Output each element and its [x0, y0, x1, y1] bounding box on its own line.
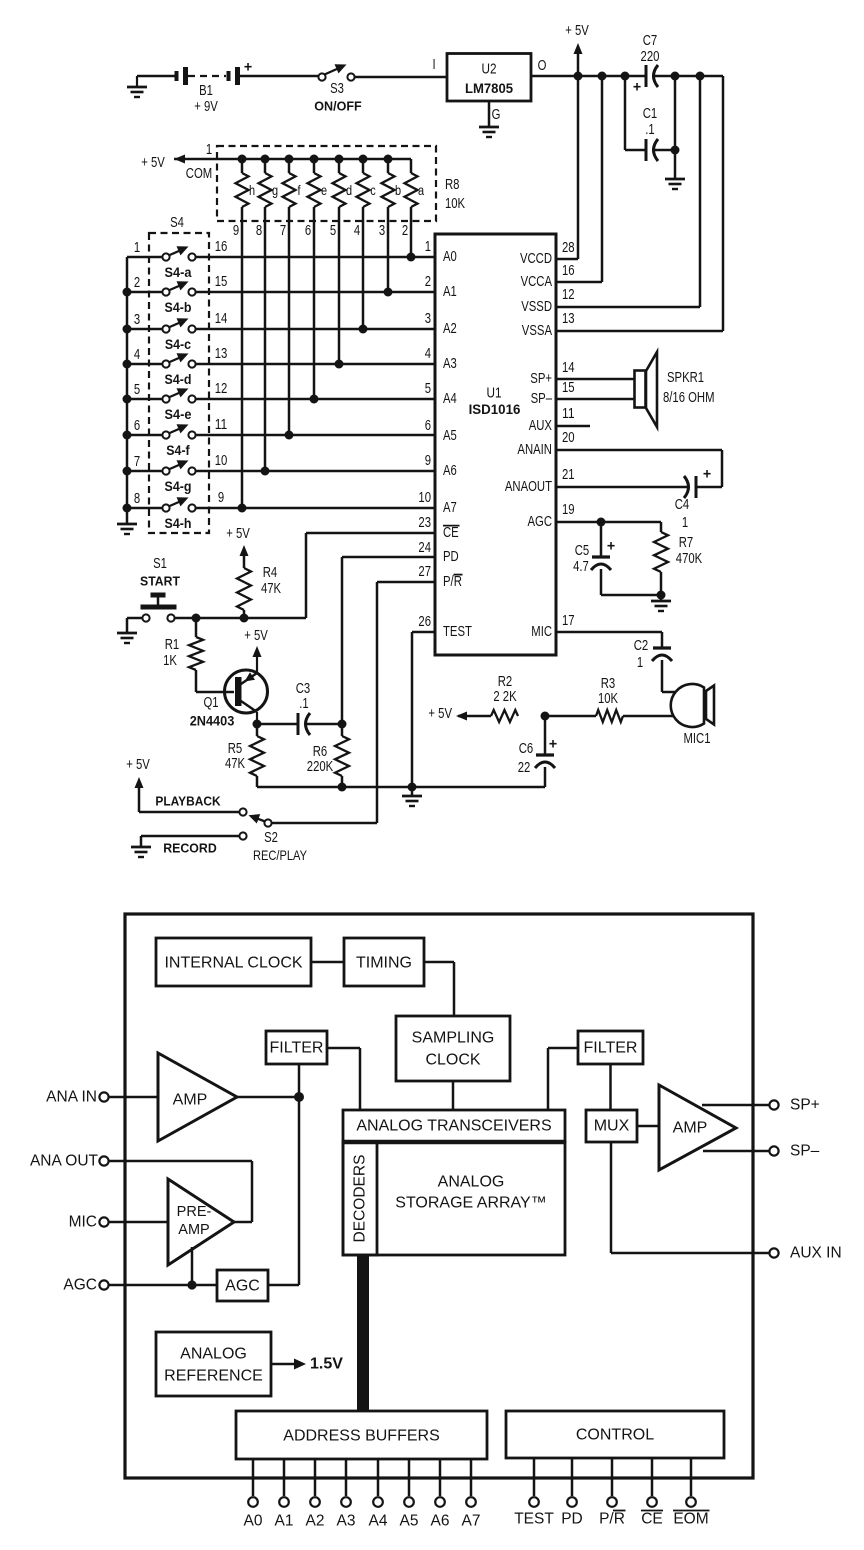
svg-text:R3: R3 — [601, 676, 616, 692]
svg-text:13: 13 — [215, 346, 228, 362]
svg-text:3: 3 — [134, 312, 140, 328]
transistor Q1 2N4403 — [190, 650, 268, 729]
svg-text:AMP: AMP — [173, 1092, 208, 1109]
wire +5V rail — [531, 75, 723, 78]
block FILTER left — [266, 1031, 327, 1064]
svg-text:U2: U2 — [482, 61, 497, 78]
wire — [609, 1064, 612, 1110]
wire — [548, 1048, 578, 1110]
svg-text:23: 23 — [418, 515, 431, 531]
pin label CE pin 23 — [418, 515, 459, 541]
wire — [196, 328, 435, 331]
pin number 2 — [402, 223, 408, 239]
svg-text:6: 6 — [305, 223, 311, 239]
pin label VSSD pin 12 — [521, 287, 574, 315]
svg-text:8: 8 — [256, 223, 262, 239]
pin label TEST pin 26 — [418, 614, 472, 640]
svg-text:INTERNAL CLOCK: INTERNAL CLOCK — [164, 955, 302, 972]
ground S1 — [117, 633, 137, 643]
ground R7 — [651, 595, 671, 611]
wire — [305, 723, 342, 726]
wire SP+ out — [702, 1104, 770, 1107]
pin number 5 — [330, 223, 336, 239]
svg-text:470K: 470K — [676, 551, 703, 567]
node A2 pin — [306, 1459, 325, 1530]
node A0 pin — [244, 1459, 263, 1530]
wire — [623, 715, 674, 718]
wire — [141, 836, 240, 856]
svg-text:SAMPLING: SAMPLING — [412, 1030, 495, 1047]
resistor R8-d — [333, 159, 353, 364]
node A5 pin — [400, 1459, 419, 1530]
pin label MIC pin 17 — [531, 613, 574, 640]
junction — [285, 155, 294, 164]
switch S4-h — [134, 490, 224, 531]
svg-text:47K: 47K — [225, 756, 245, 772]
pin number 9 — [233, 223, 239, 239]
junction — [384, 288, 393, 297]
junction — [335, 155, 344, 164]
wire AUX IN — [611, 1142, 770, 1253]
node +5V playback — [126, 757, 150, 812]
svg-text:Q1: Q1 — [203, 695, 218, 711]
junction — [294, 1092, 304, 1102]
node A1 pin — [275, 1459, 294, 1530]
junction — [123, 395, 132, 404]
svg-text:AUX: AUX — [529, 418, 553, 434]
svg-text:7: 7 — [134, 454, 140, 470]
svg-text:e: e — [321, 182, 327, 198]
svg-text:14: 14 — [562, 360, 575, 376]
svg-text:S1: S1 — [153, 556, 167, 572]
svg-text:d: d — [346, 182, 352, 198]
capacitor C1 .1 — [643, 106, 658, 161]
svg-text:START: START — [140, 574, 180, 589]
svg-text:3: 3 — [379, 223, 385, 239]
svg-text:+: + — [703, 466, 712, 483]
svg-text:C6: C6 — [519, 741, 534, 757]
svg-text:TEST: TEST — [443, 624, 472, 640]
svg-text:MIC: MIC — [69, 1214, 97, 1231]
svg-text:FILTER: FILTER — [584, 1040, 638, 1057]
op-amp PRE-AMP — [168, 1179, 234, 1265]
svg-text:4: 4 — [354, 223, 360, 239]
svg-text:4: 4 — [425, 346, 431, 362]
wire VCCD to rail — [556, 76, 578, 259]
svg-text:220: 220 — [641, 49, 660, 65]
pin label SP– pin 15 — [531, 380, 575, 407]
svg-text:17: 17 — [562, 613, 575, 629]
wire — [327, 1048, 360, 1110]
junction — [671, 146, 680, 155]
wire VCCA to rail — [556, 76, 602, 282]
svg-text:5: 5 — [425, 381, 431, 397]
svg-text:11: 11 — [562, 406, 575, 422]
svg-text:S4-b: S4-b — [165, 300, 192, 315]
svg-text:3: 3 — [425, 311, 431, 327]
svg-text:2: 2 — [425, 274, 431, 290]
switch S4-e — [134, 381, 227, 422]
svg-text:ANALOG: ANALOG — [180, 1346, 247, 1363]
wire — [355, 57, 447, 77]
svg-text:+: + — [244, 59, 253, 76]
svg-text:A6: A6 — [431, 1513, 450, 1530]
resistor R8-a — [405, 159, 425, 257]
junction — [657, 591, 666, 600]
wire — [127, 291, 162, 294]
junction — [338, 783, 347, 792]
svg-text:ANA IN: ANA IN — [46, 1089, 97, 1106]
node +5V R4 — [226, 526, 250, 556]
svg-text:C7: C7 — [643, 33, 658, 49]
junction — [285, 431, 294, 440]
svg-text:SP–: SP– — [531, 391, 553, 407]
svg-text:CONTROL: CONTROL — [576, 1427, 654, 1444]
node ANA IN terminal — [46, 1089, 108, 1106]
junction — [123, 431, 132, 440]
pin label A1 pin 2 — [425, 274, 457, 300]
svg-text:+ 5V: + 5V — [226, 526, 250, 542]
wire SP- out — [703, 1150, 770, 1153]
pin number 7 — [280, 223, 286, 239]
junction — [123, 325, 132, 334]
wire — [257, 723, 297, 726]
pin label ANAOUT pin 21 — [505, 467, 575, 495]
node +5V mic bias — [428, 706, 491, 722]
block FILTER right — [578, 1031, 643, 1064]
junction — [359, 325, 368, 334]
switch S4-b — [134, 274, 227, 315]
svg-text:+: + — [549, 736, 558, 753]
svg-text:14: 14 — [215, 311, 228, 327]
svg-text:ANALOG: ANALOG — [438, 1174, 505, 1191]
svg-text:h: h — [249, 182, 255, 198]
wire — [196, 291, 435, 294]
svg-text:A3: A3 — [337, 1513, 356, 1530]
wire — [196, 363, 435, 366]
svg-text:CE: CE — [443, 525, 459, 541]
svg-text:+ 9V: + 9V — [194, 99, 218, 115]
svg-text:7: 7 — [280, 223, 286, 239]
junction — [696, 72, 705, 81]
svg-text:AUX IN: AUX IN — [790, 1245, 842, 1262]
resistor R8-b — [382, 159, 402, 292]
pin number 3 — [379, 223, 385, 239]
resistor R3 10K — [596, 676, 623, 722]
svg-text:5: 5 — [330, 223, 336, 239]
switch S4-a — [134, 239, 227, 280]
svg-text:A0: A0 — [244, 1513, 263, 1530]
block AGC — [217, 1270, 268, 1301]
ground rail — [402, 787, 422, 806]
junction — [123, 504, 132, 513]
svg-text:SP+: SP+ — [530, 371, 552, 387]
junction — [597, 518, 606, 527]
speaker SPKR1 8/16 OHM — [635, 352, 715, 427]
junction — [574, 72, 583, 81]
wire — [240, 75, 318, 78]
ground S4 — [117, 524, 137, 534]
capacitor C4 1 — [675, 466, 712, 532]
junction — [261, 155, 270, 164]
svg-text:SPKR1: SPKR1 — [667, 370, 704, 386]
svg-text:ISD1016: ISD1016 — [469, 401, 521, 417]
svg-text:6: 6 — [425, 418, 431, 434]
wire — [545, 715, 596, 718]
svg-text:S4-c: S4-c — [165, 337, 192, 352]
wire CE — [306, 533, 435, 618]
svg-text:G: G — [492, 107, 501, 123]
wire SP- — [556, 398, 635, 401]
svg-text:10K: 10K — [445, 196, 465, 212]
svg-text:28: 28 — [562, 240, 575, 256]
svg-text:1: 1 — [682, 515, 688, 531]
svg-text:c: c — [370, 182, 376, 198]
junction — [253, 720, 262, 729]
wire — [311, 961, 344, 964]
junction — [671, 72, 680, 81]
svg-text:DECODERS: DECODERS — [352, 1155, 369, 1243]
svg-text:ADDRESS BUFFERS: ADDRESS BUFFERS — [283, 1428, 439, 1445]
block MUX — [586, 1110, 637, 1142]
pin label A2 pin 3 — [425, 311, 457, 337]
op-amp AMP right — [659, 1085, 736, 1170]
svg-text:10: 10 — [215, 453, 228, 469]
svg-text:22: 22 — [518, 760, 531, 776]
svg-text:2 2K: 2 2K — [493, 689, 517, 705]
junction — [261, 467, 270, 476]
junction — [310, 395, 319, 404]
pin label ANAIN pin 20 — [517, 430, 574, 458]
pin label VCCA pin 16 — [521, 263, 575, 290]
pin label A3 pin 4 — [425, 346, 457, 372]
node A7 pin — [462, 1459, 481, 1530]
wire P/R — [272, 582, 435, 823]
resistor R6 220K — [307, 724, 349, 787]
svg-text:19: 19 — [562, 502, 575, 518]
svg-text:TIMING: TIMING — [356, 955, 412, 972]
pin label A4 pin 5 — [425, 381, 457, 407]
node CE pin — [641, 1458, 663, 1528]
wire C1 left leg — [625, 76, 645, 150]
node PD pin — [561, 1458, 583, 1528]
wire — [237, 1096, 299, 1099]
node SP+ terminal — [769, 1097, 819, 1114]
svg-text:S4-g: S4-g — [165, 479, 192, 494]
node EOM pin — [673, 1458, 710, 1528]
svg-text:PRE-: PRE- — [177, 1204, 212, 1220]
switch S4-c — [134, 311, 227, 352]
svg-text:STORAGE ARRAY™: STORAGE ARRAY™ — [395, 1195, 546, 1212]
svg-text:+ 5V: + 5V — [126, 757, 150, 773]
resistor R8-g — [259, 159, 279, 471]
block CONTROL — [506, 1411, 724, 1458]
node A4 pin — [369, 1459, 388, 1530]
ground B1 negative terminal — [127, 76, 147, 97]
junction — [192, 614, 201, 623]
svg-text:FILTER: FILTER — [270, 1040, 324, 1057]
svg-text:21: 21 — [562, 467, 575, 483]
wire — [191, 1247, 194, 1285]
capacitor C6 22 — [518, 716, 558, 787]
svg-text:I: I — [432, 57, 435, 73]
svg-text:C3: C3 — [296, 681, 311, 697]
svg-text:ANAIN: ANAIN — [517, 442, 552, 458]
wire — [127, 470, 162, 473]
block ANALOG REFERENCE — [156, 1332, 271, 1396]
svg-text:13: 13 — [562, 311, 575, 327]
node COM +5V arrow — [141, 142, 411, 182]
ground U2 — [479, 127, 499, 137]
svg-text:A1: A1 — [275, 1513, 294, 1530]
pin label PD pin 24 — [418, 540, 458, 565]
svg-text:g: g — [272, 182, 278, 198]
wire ANAOUT — [556, 486, 688, 489]
svg-text:R7: R7 — [679, 535, 694, 551]
wire — [424, 962, 454, 1016]
node AGC terminal — [63, 1277, 108, 1294]
wire — [637, 1125, 659, 1128]
wire SP+ — [556, 378, 635, 381]
pin label VCCD pin 28 — [520, 240, 575, 267]
bus address lines — [357, 1255, 369, 1411]
svg-text:+ 5V: + 5V — [141, 155, 165, 171]
battery B1 — [175, 59, 253, 116]
wire — [127, 328, 162, 331]
resistor R2 2.2K — [491, 674, 518, 722]
svg-text:10K: 10K — [598, 691, 618, 707]
junction — [123, 360, 132, 369]
svg-text:AGC: AGC — [63, 1277, 97, 1294]
pin label A6 pin 9 — [425, 453, 457, 479]
block SAMPLING CLOCK — [396, 1016, 510, 1081]
svg-text:ANALOG TRANSCEIVERS: ANALOG TRANSCEIVERS — [356, 1118, 551, 1135]
wire — [196, 434, 435, 437]
svg-text:6: 6 — [134, 418, 140, 434]
junction — [384, 155, 393, 164]
junction — [123, 288, 132, 297]
wire — [601, 594, 661, 597]
wire — [127, 434, 162, 437]
svg-text:R8: R8 — [445, 177, 460, 193]
svg-text:A6: A6 — [443, 463, 457, 479]
svg-text:4: 4 — [134, 347, 140, 363]
svg-text:ANA OUT: ANA OUT — [30, 1153, 99, 1170]
svg-text:PD: PD — [443, 549, 459, 565]
node A6 pin — [431, 1459, 450, 1530]
svg-text:PD: PD — [561, 1511, 583, 1528]
svg-text:AMP: AMP — [178, 1222, 209, 1238]
svg-text:P/R: P/R — [599, 1511, 625, 1528]
svg-text:a: a — [418, 182, 424, 198]
svg-text:S4-f: S4-f — [166, 443, 190, 458]
svg-text:1.5V: 1.5V — [310, 1356, 343, 1373]
block ANALOG TRANSCEIVERS — [343, 1110, 565, 1142]
wire S4 common bus — [127, 257, 162, 524]
svg-text:VCCA: VCCA — [521, 274, 553, 290]
svg-text:S4-h: S4-h — [165, 516, 192, 531]
svg-text:1: 1 — [425, 239, 431, 255]
microphone MIC1 — [671, 684, 714, 747]
pin label A0 pin 1 — [425, 239, 457, 265]
wire ground leg — [674, 76, 677, 179]
svg-text:REFERENCE: REFERENCE — [164, 1368, 263, 1385]
block ANALOG STORAGE ARRAY — [343, 1142, 565, 1255]
svg-text:4.7: 4.7 — [573, 559, 589, 575]
svg-text:R6: R6 — [313, 744, 328, 760]
wire — [662, 691, 676, 694]
pin label SP+ pin 14 — [530, 360, 574, 387]
svg-text:C5: C5 — [575, 543, 590, 559]
switch S2 REC/PLAY — [239, 808, 307, 863]
wire — [196, 398, 435, 401]
block TIMING — [344, 938, 424, 986]
svg-text:R2: R2 — [498, 674, 513, 690]
svg-text:A5: A5 — [400, 1513, 419, 1530]
wire — [108, 1221, 168, 1224]
resistor R4 47K — [237, 549, 281, 618]
svg-text:ANAOUT: ANAOUT — [505, 479, 552, 495]
svg-text:A0: A0 — [443, 249, 457, 265]
junction — [187, 1280, 196, 1289]
pin label A7 pin 10 — [418, 490, 456, 516]
switch S4-d — [134, 346, 227, 387]
svg-text:A5: A5 — [443, 428, 457, 444]
svg-text:.1: .1 — [299, 696, 308, 712]
svg-text:R5: R5 — [228, 741, 243, 757]
svg-text:16: 16 — [215, 239, 228, 255]
svg-text:16: 16 — [562, 263, 575, 279]
svg-text:CE: CE — [641, 1511, 663, 1528]
wire ground rail — [257, 786, 545, 789]
svg-text:AGC: AGC — [225, 1278, 260, 1295]
junction — [359, 155, 368, 164]
svg-text:20: 20 — [562, 430, 575, 446]
svg-text:PLAYBACK: PLAYBACK — [155, 794, 221, 809]
wire — [196, 256, 435, 259]
capacitor C7 220 — [633, 33, 660, 96]
junction — [598, 72, 607, 81]
svg-text:C4: C4 — [675, 497, 690, 513]
wire — [196, 470, 435, 473]
wire — [127, 398, 162, 401]
svg-text:C1: C1 — [643, 106, 658, 122]
svg-text:S4-a: S4-a — [165, 265, 192, 280]
svg-text:S3: S3 — [330, 81, 344, 97]
switch S4-f — [134, 417, 227, 458]
svg-text:f: f — [298, 182, 301, 198]
wire — [268, 1284, 299, 1287]
pin label VSSA pin 13 — [522, 311, 575, 339]
switch S4-g — [134, 453, 227, 494]
svg-text:B1: B1 — [199, 83, 213, 99]
svg-text:.1: .1 — [645, 122, 654, 138]
junction — [238, 504, 247, 513]
wire — [127, 363, 162, 366]
wire TEST — [412, 632, 435, 787]
svg-text:+ 5V: + 5V — [428, 706, 452, 722]
svg-text:24: 24 — [418, 540, 431, 556]
svg-text:A7: A7 — [443, 500, 457, 516]
svg-text:9: 9 — [233, 223, 239, 239]
node SP- terminal — [769, 1143, 819, 1160]
wire — [196, 691, 234, 694]
node S2 record contact — [239, 832, 246, 839]
wire AUX stub — [556, 425, 590, 428]
svg-text:R4: R4 — [263, 565, 278, 581]
junction — [621, 72, 630, 81]
svg-text:1: 1 — [206, 142, 212, 158]
